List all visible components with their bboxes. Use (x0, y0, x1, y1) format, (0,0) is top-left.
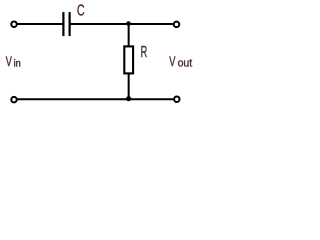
node junction top (126, 21, 131, 26)
node Vin label (6, 54, 21, 70)
svg-text:out: out (178, 58, 193, 70)
node Vout label (169, 54, 193, 70)
node junction bottom (126, 96, 131, 101)
svg-text:in: in (14, 59, 21, 70)
wire bottom rail (17, 98, 173, 100)
svg-text:V: V (169, 54, 176, 70)
svg-text:C: C (77, 3, 85, 20)
capacitor C1 plates (63, 12, 69, 36)
terminal input top (11, 21, 17, 27)
terminal input bottom (11, 97, 17, 103)
terminal output bottom (174, 96, 180, 102)
wire resistor branch vertical (128, 24, 130, 99)
wire top-left: input terminal to capacitor (17, 23, 62, 25)
terminal output top (174, 22, 180, 28)
svg-text:V: V (6, 54, 12, 69)
resistor R1 body (124, 46, 133, 73)
wire top-right: capacitor to output terminal (71, 23, 174, 25)
svg-text:R: R (141, 44, 148, 61)
